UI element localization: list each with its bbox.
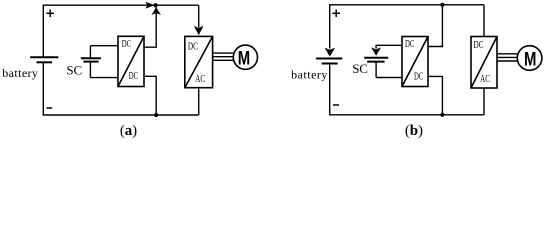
svg-text:battery: battery [291, 67, 327, 81]
svg-text:(b): (b) [405, 123, 423, 139]
wire 3-phase lines (a) [213, 53, 234, 60]
svg-text:DC: DC [129, 71, 139, 82]
wire DC/DC right-bottom to rail (b) [428, 76, 442, 114]
svg-text:SC: SC [352, 61, 368, 76]
capacitor SC (b) [364, 58, 388, 78]
battery B1 (a) [30, 5, 58, 115]
arrow up from DC/DC (a) [152, 7, 161, 15]
wire DC/AC bottom (b) [483, 88, 485, 115]
wire bottom rail (a) [43, 114, 199, 116]
wire DC/AC drop (a) [198, 5, 200, 27]
arrow down into DC/AC (a) [194, 26, 204, 35]
arrow down into battery (b) [325, 48, 335, 57]
arrow right on top rail (a) [145, 2, 154, 9]
wire DC/DC right-top to rail (b) [428, 5, 442, 47]
wire 3-phase lines (b) [497, 54, 517, 61]
converter DC/DC box (b) [402, 37, 428, 87]
arrow down into SC (b) [371, 47, 381, 55]
svg-text:DC: DC [188, 41, 198, 52]
motor M (a) [233, 45, 257, 69]
wire SC top to DC/DC (b) [376, 45, 402, 48]
wire SC top to DC/DC (a) [90, 45, 118, 47]
svg-text:battery: battery [2, 66, 38, 80]
converter DC/DC box (a) [118, 36, 144, 86]
plus label (b) [332, 10, 340, 18]
svg-text:DC: DC [122, 39, 132, 50]
motor M (b) [517, 46, 542, 71]
wire bottom rail (b) [329, 114, 484, 116]
minus label (b) [333, 104, 339, 106]
minus label (a) [47, 107, 53, 109]
capacitor SC (a) [81, 46, 101, 78]
svg-text:M: M [524, 48, 536, 70]
svg-text:DC: DC [405, 39, 415, 50]
wire DC/DC right-bottom to rail (a) [144, 76, 156, 115]
wire DC/AC bottom (a) [198, 88, 200, 115]
wire top rail (a) [43, 4, 199, 6]
plus label (a) [46, 10, 54, 18]
svg-text:AC: AC [480, 74, 490, 85]
svg-text:(a): (a) [120, 123, 137, 139]
wire DC/AC drop (b) [483, 5, 485, 37]
inverter DC/AC box (b) [471, 37, 497, 89]
svg-text:DC: DC [474, 40, 484, 51]
svg-text:SC: SC [66, 63, 82, 78]
node junction bottom (b) [440, 113, 444, 117]
wire top rail (b) [329, 4, 484, 6]
inverter DC/AC box (a) [185, 36, 213, 87]
svg-text:M: M [238, 47, 250, 69]
node junction top (a) [154, 3, 158, 7]
svg-text:DC: DC [414, 71, 424, 82]
node junction bottom (a) [154, 113, 158, 117]
wire DC/DC right-top to rail (a) [144, 5, 156, 47]
node junction top (b) [440, 3, 444, 7]
svg-text:AC: AC [195, 74, 205, 85]
wire SC bottom to DC/DC (a) [90, 77, 118, 79]
wire SC bottom to DC/DC (b) [376, 77, 402, 79]
battery B2 (b) [316, 5, 342, 115]
